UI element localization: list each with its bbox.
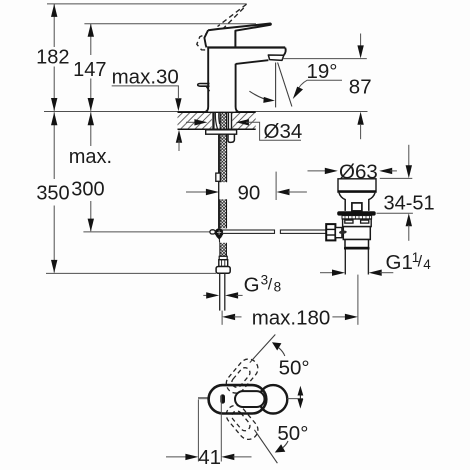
faucet spout tip [284, 48, 286, 56]
wire: deck top extension line [44, 111, 368, 113]
svg-text:147: 147 [73, 59, 106, 81]
svg-text:/: / [418, 254, 423, 271]
wire: max.180 right extension [357, 275, 359, 325]
clip on pull rod [216, 173, 221, 181]
wire: 41 left extension [197, 400, 199, 462]
svg-text:max.30: max.30 [112, 66, 179, 89]
braided hose below joint [220, 243, 227, 256]
faucet spout underside [236, 60, 269, 64]
top view: spout direction tick [198, 397, 209, 399]
dimension 147 vertical line [90, 24, 92, 111]
pop-up rod ball joint [215, 228, 224, 237]
top view: base circle [259, 385, 287, 413]
dimension 90 right arrow [277, 189, 290, 195]
dimension G3/8 arrows [203, 294, 208, 296]
svg-text:41: 41 [198, 446, 221, 469]
top view: body capsule [209, 385, 267, 413]
hose hex block [219, 260, 228, 267]
bent hose in deck [215, 112, 217, 129]
faucet body/spout top line [207, 46, 285, 48]
wire: 90 right extension line [275, 172, 277, 200]
leader max.30 underline and arrow to deck top [112, 86, 179, 98]
svg-text:350: 350 [36, 183, 69, 205]
faucet lever and knuckle [204, 24, 270, 48]
dimension Ø34 arrows at body base [186, 121, 196, 123]
dimension max.180 right arrow [332, 316, 346, 318]
wire: max.180 left extension [221, 311, 223, 325]
dimension 350 vertical line [53, 112, 55, 272]
dimension G1 1/4 arrows [320, 272, 334, 274]
G3/8 connection nut [216, 267, 230, 274]
faucet body column [208, 48, 235, 111]
mounting washer under deck [206, 130, 237, 134]
top view: cartridge mark [220, 394, 225, 403]
dimension 34-51 [408, 145, 410, 166]
braided hose segment below break [220, 199, 227, 228]
rod knurled nut at drain [326, 224, 335, 240]
svg-text:4: 4 [423, 257, 431, 272]
angle 50 lower leader line [254, 430, 277, 463]
mounting bracket stud [228, 134, 234, 142]
dimension max.180 left arrow [222, 314, 235, 320]
angle arc with arrow [249, 91, 271, 100]
horizontal pop-up rod segment B [280, 230, 326, 233]
svg-text:8: 8 [274, 280, 282, 295]
svg-text:G1: G1 [386, 251, 413, 274]
drain ribbed band [342, 216, 372, 219]
wire: spout height extension line [283, 58, 367, 60]
horizontal pop-up rod segment A [223, 230, 275, 233]
top view: lever inner stadium [235, 391, 265, 407]
braided hose segment washer to break [220, 134, 227, 182]
svg-text:max.180: max.180 [252, 306, 331, 329]
drain flange [338, 179, 376, 192]
drain main body [343, 227, 370, 240]
dimension 87 [360, 34, 362, 47]
top view: right axis line [287, 398, 303, 400]
faucet aerator [268, 55, 284, 60]
arrow max.30 below deck [176, 130, 182, 143]
drain tailpiece [345, 240, 369, 248]
hose ferrule [219, 256, 227, 259]
dimension Ø63 [308, 170, 328, 172]
leader Ø34 step line [246, 122, 301, 140]
counter deck cross-section [178, 112, 256, 129]
dimension max.300 vertical line [90, 112, 92, 231]
svg-text:19°: 19° [307, 60, 338, 83]
drain funnel [339, 193, 375, 211]
svg-text:50°: 50° [277, 422, 308, 445]
wire: 147 top extension line [84, 23, 256, 25]
angle 50 upper leader line [250, 335, 275, 363]
top view: dashed swung lever lower [222, 401, 261, 443]
svg-text:300: 300 [71, 179, 104, 201]
wire: 182 top extension line [47, 3, 247, 5]
top view: lift direction double arrow [299, 389, 301, 405]
drain upper body with slots [343, 219, 372, 227]
top view: dashed swung lever upper [222, 355, 261, 397]
dimension 41 [166, 456, 188, 458]
adjustment screw [339, 230, 347, 234]
svg-text:182: 182 [36, 47, 69, 69]
wire: max.300 bottom extension line to rod joint [83, 231, 209, 233]
faucet pop-up knob on left [198, 83, 210, 86]
angle 19 degree vertical reference line [275, 63, 277, 108]
drain pull rod head [352, 203, 362, 211]
svg-text:/: / [268, 276, 273, 293]
svg-text:87: 87 [349, 76, 372, 99]
wire: 41 right extension [220, 395, 222, 462]
rod end loop left of joint [210, 230, 215, 234]
dimension 182 vertical line [53, 4, 55, 111]
rod collar at drain [335, 228, 342, 238]
angle 19 degree slanted stream line [278, 63, 292, 107]
svg-text:34-51: 34-51 [384, 193, 435, 215]
shank hole walls in deck [212, 112, 214, 129]
svg-text:90: 90 [238, 182, 261, 205]
wire: 34-51 extension lines [380, 177, 413, 179]
dimension 90 left arrow [186, 191, 208, 193]
G3/8 pipe [219, 273, 221, 310]
svg-text:G: G [244, 274, 260, 297]
faucet: dashed raised lever position [197, 4, 247, 50]
svg-text:50°: 50° [279, 357, 310, 380]
svg-text:max.: max. [69, 146, 112, 168]
drain lock ring [337, 211, 376, 215]
braided hose through deck [220, 112, 226, 129]
joint lower cone [216, 236, 223, 239]
svg-text:Ø34: Ø34 [264, 120, 303, 143]
pull rod below deck [218, 134, 220, 228]
leader 19 degrees to slanted line [297, 80, 343, 92]
drain tailpipe [344, 250, 346, 275]
wire: 350 bottom extension line [46, 272, 216, 274]
